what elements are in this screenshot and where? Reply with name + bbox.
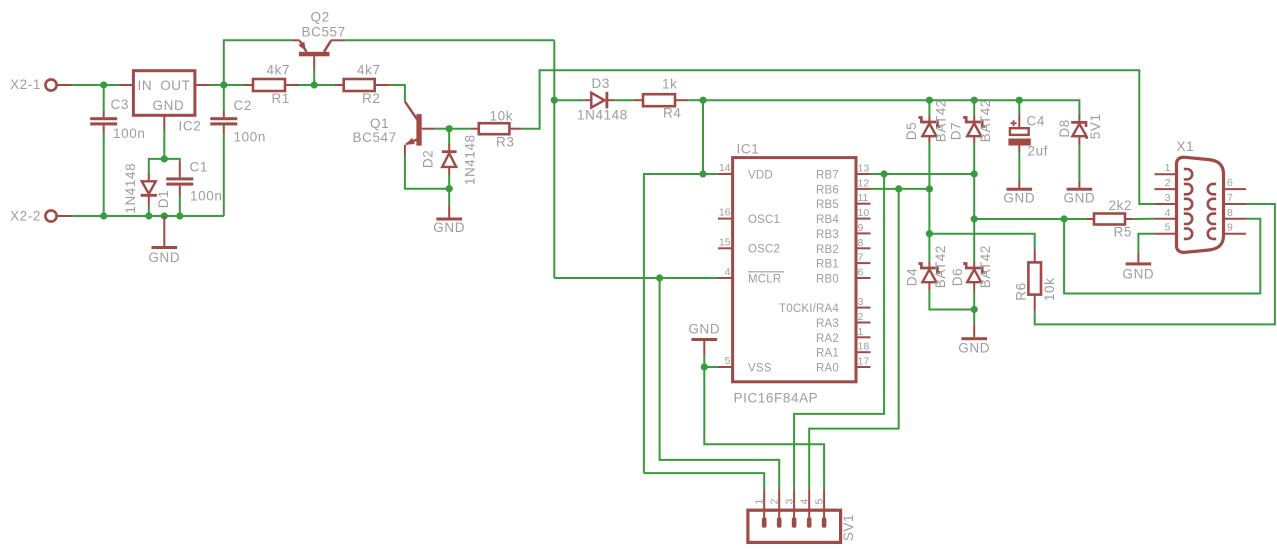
capacitor C1 [166,160,222,204]
IC1 pin 17 RA0 [816,356,870,375]
wire Q2 collector down to MCLR row [553,40,555,278]
svg-text:C4: C4 [1027,114,1045,129]
svg-text:14: 14 [719,162,731,174]
wire SV1 pin2 riser [660,278,780,490]
svg-text:RB5: RB5 [816,199,839,211]
svg-text:R3: R3 [496,135,514,150]
svg-text:5: 5 [814,499,826,505]
svg-text:R4: R4 [663,106,681,121]
connector X1 pin 4 [1155,207,1193,224]
connector X1 pin 2 [1155,177,1193,194]
diode D2 1N4148 [421,134,478,185]
wire R3 up and right to X1 pin3 column [523,70,1155,204]
IC1 pin 6 RB0 [816,267,870,286]
wire C2 down to X2-2 rail corner [223,133,225,216]
connector X1 DB9 body [1177,139,1224,252]
svg-text:1: 1 [1165,162,1171,174]
svg-text:100n: 100n [190,189,222,204]
node junction at (974.2,100.2) [971,97,978,104]
svg-text:7: 7 [1227,192,1233,204]
node junction at (103.7,85) [100,81,107,88]
resistor R3 10k [449,109,522,150]
IC1 pin 18 RA1 [816,341,870,360]
svg-text:VDD: VDD [748,170,773,182]
svg-text:R2: R2 [362,91,380,106]
svg-text:5: 5 [1165,222,1171,234]
svg-text:100n: 100n [234,130,266,145]
ground GND at D8 [1063,145,1095,206]
terminal X2-1 [45,79,72,90]
svg-text:D5: D5 [904,122,919,140]
IC1 pin 12 RB6 [816,177,870,196]
node junction at (164.3,216) [161,212,168,219]
node junction at (164.3,158.9) [161,155,168,162]
wire node (223.8,85) up to Q2 emitter rail [224,40,292,85]
wire D6 to ground node [973,290,975,310]
svg-text:C2: C2 [234,98,252,113]
wire node down to D2 [448,129,450,144]
wire Q1 emitter loop to node (449.2,188.7) [405,156,449,189]
node junction at (703,174) [699,170,706,177]
wire node to D1 and C1 tops [149,159,180,173]
svg-text:C3: C3 [111,97,129,112]
svg-text:RB6: RB6 [816,184,839,196]
svg-text:1: 1 [858,326,864,338]
wire RB6 pin12 row [871,188,930,190]
IC1 pin 15 OSC2 [718,236,780,255]
node junction at (314.2,85) [311,81,318,88]
svg-text:10k: 10k [490,109,514,124]
svg-text:D1: D1 [156,190,171,208]
resistor R1 4k7 [224,63,314,107]
svg-text:IC1: IC1 [737,142,760,157]
wire SV1 pin3 riser [794,174,884,490]
connector X1 pin 6 [1208,177,1246,194]
svg-text:RA2: RA2 [816,333,839,345]
connector SV1 pin 4 [799,490,812,528]
node junction at (704.3,367) [701,363,708,370]
IC1 pin 2 RA3 [816,311,870,330]
svg-text:IN: IN [138,78,153,93]
svg-text:1N4148: 1N4148 [123,163,138,214]
connector SV1 body [748,510,856,542]
wire R6 link row [929,234,1034,250]
svg-text:X2-2: X2-2 [10,209,41,224]
svg-text:12: 12 [858,177,870,189]
svg-text:4k7: 4k7 [267,63,291,78]
svg-text:BAT42: BAT42 [933,99,948,142]
wire Q1 base to node (449.2,128.7) [435,128,449,130]
ground GND at D4/D6 [958,310,990,356]
capacitor C4 2uf [1008,114,1048,159]
resistor R4 1k [633,77,688,121]
ground GND at D2 [433,189,465,235]
connector X1 pin 1 [1155,162,1193,179]
node junction at (1019.3,100.2) [1016,97,1023,104]
svg-text:D3: D3 [592,76,610,91]
wire SV1 pin4 riser [809,189,899,490]
diode D6 BAT42 [950,245,993,290]
wire D6 column [973,219,975,262]
svg-text:2k2: 2k2 [1109,198,1133,213]
svg-text:7: 7 [858,252,864,264]
svg-text:OSC1: OSC1 [748,214,780,226]
connector SV1 pin 5 [814,490,827,528]
svg-text:11: 11 [858,192,869,204]
svg-text:6: 6 [1227,177,1233,189]
node junction at (703,100.2) [699,97,706,104]
svg-text:4: 4 [1165,207,1171,219]
wire IC2 OUT to node (223.8,85) [210,84,224,86]
svg-text:C1: C1 [190,160,208,175]
svg-text:13: 13 [858,163,870,175]
svg-text:16: 16 [719,207,731,219]
svg-text:10: 10 [858,207,870,219]
svg-text:D7: D7 [949,122,964,140]
IC IC1 PIC16F84AP body [733,142,856,406]
node junction at (449.2,128.7) [446,125,453,132]
node junction at (179.8,216) [176,212,183,219]
svg-text:3: 3 [858,296,864,308]
svg-text:RB3: RB3 [816,229,839,241]
capacitor C2 [210,98,266,145]
svg-text:IC2: IC2 [179,119,202,134]
svg-text:D4: D4 [904,268,919,286]
svg-text:R1: R1 [272,91,290,106]
svg-text:5V1: 5V1 [1088,113,1103,139]
svg-text:RA3: RA3 [816,318,839,330]
wire D7 to pin13 node and down to R5 row [973,143,975,219]
svg-text:BC557: BC557 [302,25,346,40]
svg-text:BAT42: BAT42 [978,245,993,288]
svg-text:2uf: 2uf [1028,144,1049,159]
svg-text:10k: 10k [1042,278,1057,302]
connector X1 pin 8 [1208,207,1246,224]
wire D2 to node (449.2,188.7) [448,175,450,189]
svg-text:BAT42: BAT42 [933,245,948,288]
svg-text:1k: 1k [662,77,677,92]
IC1 pin 10 RB4 [816,207,870,226]
connector X1 pin 7 [1208,192,1246,209]
svg-text:GND: GND [153,98,185,113]
wire MCLR row [554,277,718,279]
wire RB7 pin13 row [871,173,975,175]
node junction at (659.6,278) [656,274,663,281]
svg-text:RB7: RB7 [816,170,839,182]
svg-text:SV1: SV1 [841,514,856,541]
connector SV1 pin 2 [769,490,782,528]
svg-text:PIC16F84AP: PIC16F84AP [734,391,819,406]
svg-text:GND: GND [433,220,465,235]
svg-text:GND: GND [148,250,180,265]
node junction at (1064.1,219) [1061,215,1068,222]
wire VDD row [644,174,718,473]
IC1 pin 11 RB5 [816,192,870,211]
wire X2-2 rail [72,215,223,217]
svg-text:RB2: RB2 [816,244,839,256]
svg-text:T0CKI/RA4: T0CKI/RA4 [779,303,839,315]
IC1 pin 1 RA2 [816,326,870,345]
IC1 pin 16 OSC1 [718,207,780,226]
svg-text:4: 4 [799,499,811,505]
wire rail to D7 [973,100,975,115]
wire Q2 collector rail to x=554.3 [345,39,554,41]
wire R6 bottom to X1 pin7 [1035,204,1275,324]
ground GND at C4 [1003,152,1035,206]
svg-text:D6: D6 [950,268,965,286]
IC1 pin 13 RB7 [816,163,870,182]
wire R5 to X1 pin4 [1133,218,1154,220]
svg-text:5: 5 [725,355,731,367]
resistor R2 4k7 [314,63,390,107]
wire SV1 pin1 riser [644,473,764,490]
svg-text:X2-1: X2-1 [10,77,41,92]
wire D1 to X2-2 rail [148,206,150,217]
wire D5 to pin12 node [928,143,930,189]
node junction at (223.8,85) [220,81,227,88]
svg-text:RA1: RA1 [816,348,839,360]
node junction at (974.2,309.5) [971,306,978,313]
wire D4 bottom corner to ground node [929,290,974,310]
transistor Q2 BC557 [292,10,346,71]
capacitor C3 [90,97,145,141]
node junction at (929.4,233.7) [926,230,933,237]
node junction at (929.4,188.9) [926,185,933,192]
wire node down and right to X1 pin8 [1064,219,1260,294]
node junction at (974.2,174) [971,170,978,177]
svg-text:18: 18 [858,341,870,353]
svg-text:3: 3 [1165,192,1171,204]
wire R2 to Q1 collector [390,85,405,102]
svg-text:RB4: RB4 [816,214,839,226]
node junction at (929.4,100.2) [926,97,933,104]
wire C2 column [223,85,225,111]
node junction at (103.7,216) [100,212,107,219]
svg-text:4: 4 [725,266,731,278]
svg-text:R5: R5 [1114,225,1132,240]
svg-text:2: 2 [1165,177,1171,189]
svg-text:1N4148: 1N4148 [577,108,628,123]
ground GND at VSS (flipped) [688,322,720,368]
svg-text:GND: GND [1122,267,1154,282]
svg-text:MCLR: MCLR [748,273,781,285]
connector SV1 pin 3 [784,490,797,528]
svg-text:RB1: RB1 [816,259,839,271]
wire C3 to X2-2 rail [103,133,105,216]
svg-text:R6: R6 [1013,282,1028,300]
node junction at (148.8,216) [145,212,152,219]
node junction at (974.2,219) [971,215,978,222]
node junction at (449.2,188.7) [446,185,453,192]
svg-text:OSC2: OSC2 [748,244,780,256]
diode D5 BAT42 [904,99,949,143]
wire R5 row from D6/D7 column [974,218,1086,220]
ground GND at X1 pin5 [1122,254,1154,282]
node junction at (884.1,174) [881,170,888,177]
wire X2-1 to IC2 IN [72,84,118,86]
diode D7 BAT42 [949,99,994,143]
svg-text:VSS: VSS [748,362,772,374]
svg-text:GND: GND [1003,191,1035,206]
svg-text:9: 9 [858,222,864,234]
svg-text:1N4148: 1N4148 [462,134,477,185]
wire node to D3 [554,99,584,101]
connector X1 pin 9 [1208,222,1246,239]
terminal X2-2 [45,210,72,221]
wire D4 column [928,189,930,262]
wire rail to C4 [1018,100,1020,114]
svg-text:D8: D8 [1057,119,1072,137]
svg-text:8: 8 [858,237,864,249]
diode D3 1N4148 [577,76,628,123]
diode D8 zener 5V1 [1057,113,1103,145]
IC1 pin 8 RB2 [816,237,870,256]
wire SV1 pin5 riser [704,367,824,490]
wire IC2 GND down to node (164.5,158.9) [163,130,165,159]
diode D4 BAT42 [904,245,948,290]
wire X1 pin5 to ground corner [1138,234,1154,254]
svg-text:6: 6 [858,267,864,279]
svg-text:GND: GND [688,322,720,337]
ground GND left [148,216,180,265]
svg-text:BAT42: BAT42 [978,99,993,142]
connector X1 pin 3 [1155,192,1193,209]
svg-text:2: 2 [858,311,864,323]
svg-text:Q2: Q2 [311,10,330,25]
svg-text:RB0: RB0 [816,274,839,286]
wire C1 to X2-2 rail [179,196,181,216]
svg-text:X1: X1 [1177,139,1195,154]
svg-text:4k7: 4k7 [357,63,381,78]
node junction at (898.7,188.9) [895,185,902,192]
svg-text:OUT: OUT [160,78,190,93]
resistor R5 2k2 [1086,198,1133,240]
voltage regulator IC2 [119,71,210,134]
IC1 pin 5 VSS [718,355,772,374]
wire node to C3 [103,85,105,111]
svg-text:GND: GND [958,341,990,356]
svg-text:8: 8 [1227,207,1233,219]
connector X1 pin 5 [1155,222,1193,239]
svg-text:GND: GND [1063,191,1095,206]
svg-text:17: 17 [858,356,870,368]
svg-text:9: 9 [1227,222,1233,234]
transistor Q1 BC547 [353,102,436,157]
diode D1 1N4148 [123,163,171,214]
wire rail to D5 [928,100,930,115]
wire R4 to node [688,99,703,101]
IC1 pin 14 VDD [718,162,773,182]
resistor R6 10k [1013,250,1057,311]
svg-text:2: 2 [769,499,781,505]
wire top rail to D8 corner [703,100,1079,114]
svg-text:D2: D2 [421,150,436,168]
wire D3 to R4 [615,99,633,101]
IC1 pin 9 RB3 [816,222,870,241]
IC1 pin 4 MCLR [718,266,784,285]
svg-text:3: 3 [784,499,796,505]
svg-text:100n: 100n [113,126,145,141]
svg-text:BC547: BC547 [353,130,397,145]
wire node down to VDD row [702,100,704,174]
IC1 pin 3 T0CKI/RA4 [779,296,870,315]
connector SV1 pin 1 [754,490,767,528]
wire Q2 base to node [313,70,315,85]
svg-text:RA0: RA0 [816,363,839,375]
svg-text:Q1: Q1 [370,116,389,131]
node junction at (554.3,100.2) [551,97,558,104]
svg-text:15: 15 [719,236,731,248]
svg-text:1: 1 [754,499,766,505]
wire VSS row [704,366,718,368]
IC1 pin 7 RB1 [816,252,870,271]
